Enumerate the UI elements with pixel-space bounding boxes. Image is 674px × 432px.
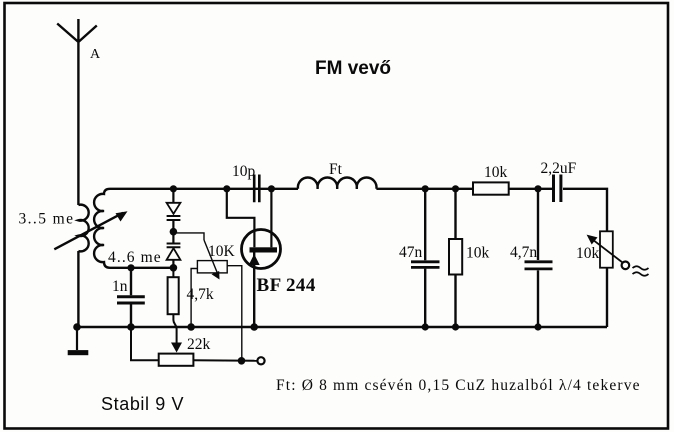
svg-text:FM vevő: FM vevő bbox=[315, 58, 391, 79]
coil L2 4..6 me (tank coil) bbox=[94, 189, 110, 268]
svg-text:10k: 10k bbox=[466, 245, 490, 262]
node 1n top bbox=[127, 264, 134, 271]
terminal output circle right bbox=[622, 262, 630, 270]
coil L1 3..5 me (antenna coil) bbox=[78, 205, 88, 327]
node 47n top bbox=[422, 185, 429, 192]
ground bbox=[68, 327, 89, 355]
wire varicap bias to 10K wiper bbox=[173, 233, 204, 240]
node top of varicaps bbox=[170, 185, 177, 192]
svg-text:Stabil 9 V: Stabil 9 V bbox=[101, 394, 184, 414]
potentiometer 22k bbox=[131, 327, 257, 366]
inductor Ft bbox=[298, 177, 377, 188]
capacitor 47n bbox=[411, 189, 440, 327]
capacitor 4,7n bbox=[525, 189, 553, 327]
svg-text:A: A bbox=[90, 47, 101, 62]
node output junction bbox=[238, 357, 246, 365]
svg-text:10p: 10p bbox=[232, 163, 256, 180]
resistor 10k vertical bbox=[449, 189, 462, 327]
node bus 1n bbox=[127, 323, 135, 331]
svg-text:10k: 10k bbox=[484, 164, 508, 181]
wire top rail bbox=[110, 189, 607, 232]
tuning arrow across coils bbox=[54, 211, 127, 249]
svg-text:10K: 10K bbox=[208, 243, 236, 260]
node bus pot left bbox=[187, 323, 195, 331]
capacitor 1n bbox=[117, 268, 145, 327]
node 10k vertical bottom bbox=[452, 323, 459, 330]
svg-text:Ft: Ft bbox=[329, 161, 343, 178]
svg-text:4,7n: 4,7n bbox=[510, 244, 537, 261]
wire mid rail bbox=[110, 267, 173, 269]
svg-text:22k: 22k bbox=[187, 336, 211, 353]
af output tildes bbox=[633, 266, 649, 276]
potentiometer 10K bbox=[191, 240, 242, 361]
node source to bus bbox=[250, 323, 258, 331]
node 10k vertical top bbox=[452, 185, 459, 192]
svg-text:Ft: Ø 8 mm csévén 0,15 CuZ huz: Ft: Ø 8 mm csévén 0,15 CuZ huzalból λ/4 … bbox=[276, 377, 641, 394]
svg-text:10k: 10k bbox=[576, 245, 600, 262]
antenna A1 bbox=[57, 19, 97, 205]
wire 4,7k to 22k wiper arrow bbox=[171, 314, 182, 352]
node 10p right bbox=[268, 185, 275, 192]
svg-text:4..6 me: 4..6 me bbox=[108, 249, 162, 266]
node antenna bus bbox=[73, 323, 81, 331]
node 4,7n top bbox=[534, 185, 541, 192]
capacitor 10p bbox=[254, 175, 259, 203]
svg-text:BF 244: BF 244 bbox=[257, 275, 316, 296]
node 47n bottom bbox=[422, 323, 429, 330]
node 4,7n bottom bbox=[534, 323, 541, 330]
svg-text:3..5 me: 3..5 me bbox=[19, 211, 75, 228]
wire gate from 10p node bbox=[227, 189, 255, 248]
potentiometer 10k output bbox=[587, 231, 623, 327]
varicap D1 bbox=[167, 189, 181, 232]
resistor 10k horizontal bbox=[473, 182, 509, 194]
node bottom of varicaps bbox=[170, 264, 178, 272]
transistor Q1 BF244 bbox=[242, 189, 281, 327]
svg-text:2,2uF: 2,2uF bbox=[541, 160, 577, 177]
node between varicaps bbox=[170, 228, 178, 236]
varicap D2 bbox=[167, 232, 181, 268]
terminal output circle bbox=[257, 357, 264, 364]
svg-text:1n: 1n bbox=[112, 278, 128, 295]
resistor 4,7k bbox=[168, 268, 179, 314]
node 10p left bbox=[223, 185, 230, 192]
svg-text:47n: 47n bbox=[399, 244, 423, 261]
capacitor 2,2uF bbox=[554, 175, 561, 203]
svg-text:4,7k: 4,7k bbox=[187, 286, 214, 303]
wire bottom bus bbox=[77, 326, 607, 328]
